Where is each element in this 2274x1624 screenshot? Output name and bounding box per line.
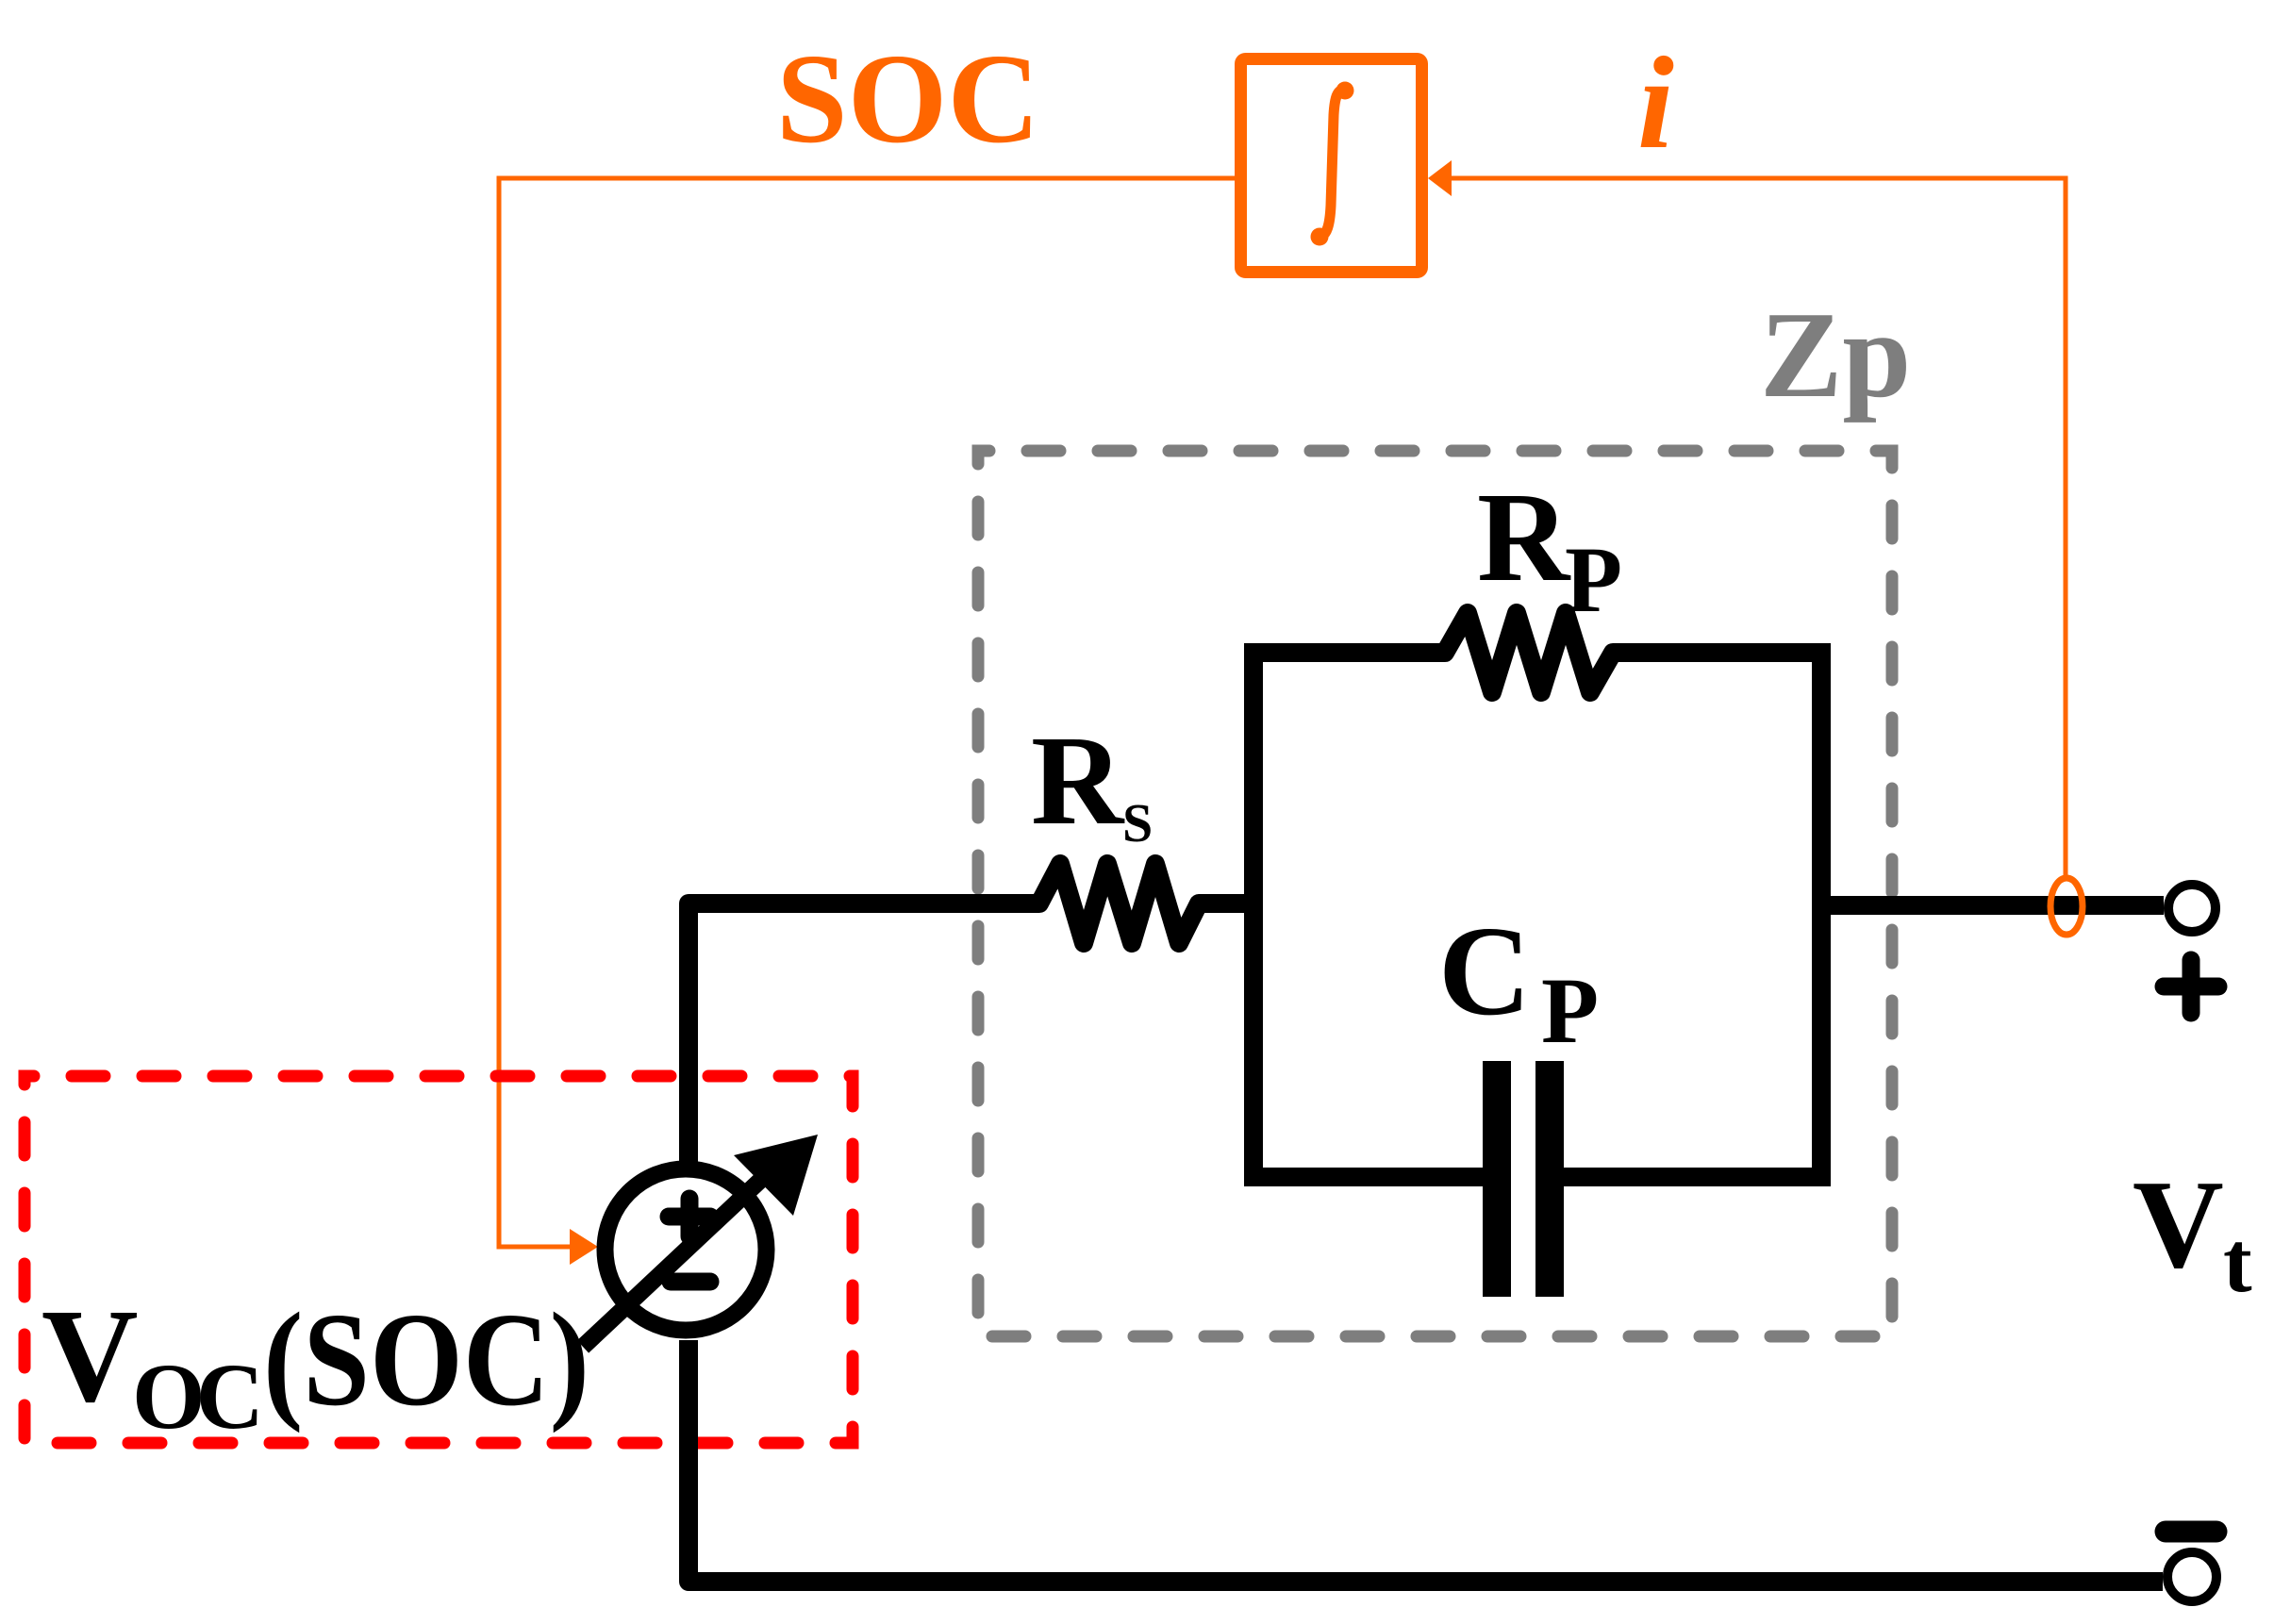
wire SOC feedback: U1 output left, down, into source arrow bbox=[499, 178, 1235, 1247]
svg-text:SOC: SOC bbox=[776, 28, 1040, 170]
svg-text:R: R bbox=[1477, 467, 1571, 608]
svg-text:OC: OC bbox=[132, 1344, 257, 1449]
wire i sense: from probe up and left into U1 bbox=[1452, 178, 2066, 875]
svg-text:(SOC): (SOC) bbox=[263, 1284, 589, 1433]
wire parallel block left vertical bbox=[1244, 643, 1263, 1186]
wire bottom branch left of Cp bbox=[1253, 1168, 1483, 1186]
box Zp (gray dashed impedance boundary) bbox=[978, 451, 1892, 1336]
resistor Rs bbox=[1000, 864, 1253, 943]
integral symbol inside U1 bbox=[1311, 82, 1354, 246]
integrator U1 (orange box) bbox=[1241, 59, 1422, 273]
plus sign at terminal bbox=[2164, 960, 2218, 1013]
svg-text:V: V bbox=[2133, 1154, 2224, 1294]
capacitor Cp left plate bbox=[1483, 1061, 1511, 1297]
wire output to + terminal bbox=[1821, 896, 2164, 915]
svg-text:P: P bbox=[1541, 958, 1599, 1063]
wire top branch + resistor RP bbox=[1253, 613, 1821, 692]
minus sign at bottom terminal bbox=[2166, 1521, 2216, 1543]
terminal - (bottom right open circle) bbox=[2167, 1552, 2216, 1601]
svg-text:i: i bbox=[1637, 30, 1674, 176]
svg-text:Zp: Zp bbox=[1760, 287, 1911, 423]
svg-text:P: P bbox=[1565, 527, 1622, 632]
capacitor Cp right plate bbox=[1535, 1061, 1564, 1297]
svg-text:C: C bbox=[1438, 901, 1531, 1042]
svg-text:V: V bbox=[41, 1281, 139, 1430]
svg-text:S: S bbox=[1122, 792, 1153, 853]
current probe (orange ellipse on output wire) bbox=[2050, 878, 2083, 935]
wire source bottom to ground rail bbox=[689, 1340, 2163, 1582]
voltage source Voc(SOC) circle bbox=[606, 1169, 767, 1331]
minus inside source bbox=[671, 1273, 710, 1291]
plus inside source bbox=[669, 1199, 710, 1236]
arrowhead into U1 right side bbox=[1428, 160, 1452, 196]
svg-text:R: R bbox=[1031, 710, 1125, 852]
terminal + (top right open circle) bbox=[2168, 885, 2216, 932]
variable-source diagonal arrow bbox=[583, 1175, 766, 1347]
svg-text:t: t bbox=[2223, 1214, 2252, 1310]
wire source top to Rs bbox=[689, 903, 1039, 1162]
box Voc (red dashed source boundary) bbox=[25, 1076, 853, 1443]
arrowhead into voltage source bbox=[570, 1229, 598, 1265]
wire bottom branch right of Cp bbox=[1564, 1168, 1821, 1186]
wire parallel block right vertical bbox=[1812, 643, 1831, 1186]
